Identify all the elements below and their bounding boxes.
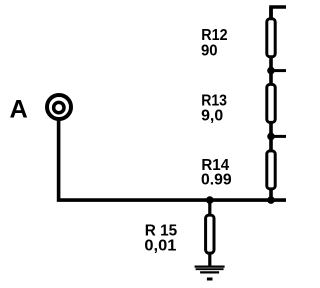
terminal A: [47, 95, 71, 119]
svg-text:A: A: [10, 96, 28, 124]
wire: vertical chain x=271 through R12,R13,R14 down to bus: [269, 7, 273, 200]
resistor R14: [267, 151, 275, 189]
node: junction dot R15/bus: [206, 196, 214, 204]
svg-text:0,01: 0,01: [144, 237, 176, 254]
wire: stub right of node between R13 and R14: [271, 135, 286, 138]
wire: from terminal A down and right along bus to right edge: [59, 120, 286, 200]
wire: stub right of node between R12 and R13: [271, 69, 286, 72]
node: junction dot R13/R14: [267, 133, 275, 141]
node: junction dot R12/R13: [267, 67, 275, 75]
wire: R15 lead from bus to ground: [208, 200, 211, 266]
resistor R13: [267, 84, 275, 122]
ground: [195, 267, 225, 281]
wire: top lead from R12 to right edge: [271, 7, 286, 19]
resistor R15: [206, 215, 214, 253]
svg-text:0.99: 0.99: [201, 172, 232, 189]
svg-text:9,0: 9,0: [201, 107, 223, 124]
node: junction dot chain/bus: [267, 196, 275, 204]
resistor R12: [267, 19, 275, 57]
svg-text:90: 90: [201, 42, 218, 59]
